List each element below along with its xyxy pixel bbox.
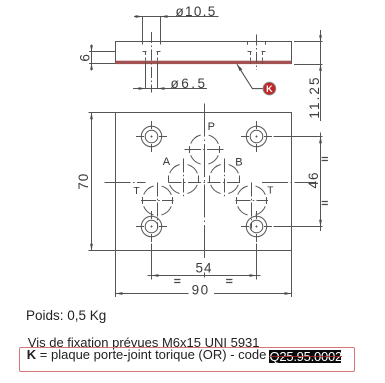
svg-text:T: T	[134, 186, 140, 197]
port B edge ticks	[210, 176, 240, 183]
port B vertical center line	[224, 159, 226, 199]
right hole hidden walls through red band	[251, 58, 263, 65]
center tick on 54	[204, 273, 206, 278]
dimension 54 line	[148, 275, 261, 277]
ext lines for dia 6.5 below	[145, 64, 147, 89]
bolt hole top-left	[136, 121, 167, 152]
plate edge extensions for 90 dim	[115, 251, 117, 298]
ext line from top-right hole to 46 dim	[274, 136, 323, 138]
bolt hole bottom-left	[136, 211, 167, 242]
svg-text:T: T	[267, 186, 273, 197]
equal marks at 54 dim	[174, 280, 180, 283]
port A vertical center line	[183, 159, 185, 199]
dia10.5 arrows	[136, 15, 143, 18]
svg-text:46: 46	[306, 171, 321, 188]
svg-text:B: B	[235, 157, 242, 169]
dimension texts	[76, 4, 322, 298]
dimension line dia 10.5	[134, 16, 219, 18]
dim 90 arrows	[116, 292, 123, 295]
port T left edge ticks	[143, 197, 173, 204]
right hole counterbore bottom hidden hooks	[248, 52, 266, 56]
bolt hole bottom-right	[241, 211, 272, 242]
right hole counterbore hidden walls	[248, 42, 266, 45]
left hole counterbore walls / ext lines for dia 10.5	[142, 17, 144, 45]
leader to K symbol	[237, 64, 263, 88]
K symbol circle	[263, 82, 276, 95]
dia6.5 arrows	[139, 87, 146, 90]
svg-text:P: P	[208, 121, 215, 133]
svg-text:ø10.5: ø10.5	[176, 4, 217, 19]
highlighted code box	[269, 350, 342, 363]
port T right dashed circle	[237, 186, 267, 216]
dimension 70 ext lines	[89, 112, 116, 114]
svg-text:54: 54	[195, 260, 212, 275]
port A dashed circle	[169, 164, 199, 194]
dim 11.25 arrows	[319, 35, 322, 41]
svg-text:70: 70	[76, 173, 91, 190]
dimension line dia 6.5	[133, 88, 207, 90]
equal marks at 46 dim	[174, 158, 328, 283]
bolt hole top-right	[241, 121, 272, 152]
port A edge ticks	[169, 176, 199, 183]
ext line from bottom-right hole to 46 dim	[274, 226, 323, 228]
svg-text:ø6.5: ø6.5	[171, 76, 208, 91]
center line right hole	[256, 35, 258, 71]
port T left center lines	[141, 200, 174, 202]
port P dashed circle	[190, 135, 220, 165]
horizontal center line stubs	[105, 182, 146, 184]
port P horizontal center line	[185, 149, 225, 151]
dimension 11.25 ext lines	[294, 41, 323, 43]
svg-text:6: 6	[78, 53, 93, 62]
svg-text:K: K	[266, 84, 273, 94]
dimension 46 line	[320, 133, 322, 232]
dimension 70 line	[91, 113, 93, 251]
dimension 90 line	[116, 293, 189, 295]
svg-text:90: 90	[192, 282, 210, 297]
red framed K note	[19, 347, 355, 372]
bottom text block	[26, 308, 106, 323]
main vertical center line	[204, 104, 206, 260]
svg-text:11.25: 11.25	[307, 75, 322, 118]
dim 6 arrows	[90, 45, 93, 51]
port T right edge ticks	[237, 197, 267, 204]
dimension 6 line	[91, 45, 93, 71]
center line left hole	[151, 32, 153, 93]
left hole hidden walls through red band	[146, 58, 158, 65]
arrowheads	[90, 15, 322, 295]
dimension 6 ext lines	[89, 51, 116, 53]
side view plate outline	[116, 42, 292, 65]
leader arrow	[237, 64, 242, 71]
port T right center lines	[236, 200, 269, 202]
dimension 11.25 line	[320, 30, 322, 121]
port P edge ticks	[190, 146, 220, 153]
dim 70 arrows	[90, 113, 93, 120]
plan view plate outline	[116, 113, 292, 251]
red strike over code	[269, 356, 342, 357]
svg-text:A: A	[163, 156, 171, 168]
left hole counterbore bottom hidden hooks	[143, 52, 161, 56]
seal plate red band K	[116, 61, 292, 64]
ext lines from bottom holes to 54 dim	[151, 244, 153, 280]
port T left dashed circle	[143, 186, 173, 216]
port B dashed circle	[210, 164, 240, 194]
dim 54 arrows	[152, 274, 159, 277]
dim 46 arrows	[319, 137, 322, 144]
